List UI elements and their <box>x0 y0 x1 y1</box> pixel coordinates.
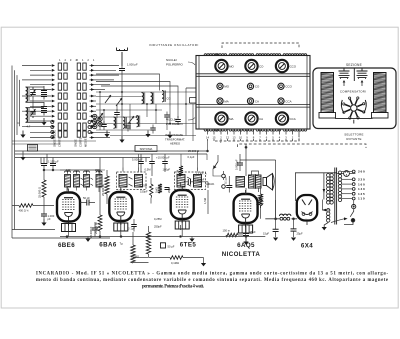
trimmer capacitor stack B <box>357 69 368 80</box>
switch output wires (right, arrowed) <box>90 64 120 139</box>
heater feed arrow <box>331 217 348 222</box>
grid leads into tubes <box>67 182 246 230</box>
coil L7 <box>123 117 126 128</box>
label NUCLEI POLIFERRO (top) <box>166 58 195 66</box>
wire y257 extension <box>133 257 148 259</box>
svg-text:50 μF: 50 μF <box>168 244 175 248</box>
bus junction dots <box>207 150 209 152</box>
junction dots (BE6 top) <box>43 169 100 171</box>
capacitor 2.1pF <box>128 219 137 232</box>
resistor 400 ohm <box>12 204 54 213</box>
capacitor Cm1 <box>101 121 107 130</box>
adjuster MO (small) <box>217 83 230 89</box>
resistor 1M (vert) <box>155 184 163 193</box>
IF transformer T2 <box>175 168 206 190</box>
capacitor Cm6 <box>175 116 181 125</box>
svg-text:CCA: CCA <box>285 99 291 103</box>
resistor 1.5M (jack return) <box>203 190 208 214</box>
ground (mesh 3) <box>147 131 149 135</box>
svg-text:25.000 pF: 25.000 pF <box>101 184 105 196</box>
svg-text:MO: MO <box>229 64 234 68</box>
svg-text:7µ: 7µ <box>120 242 124 246</box>
trimmer capacitor CT1 <box>30 87 36 99</box>
riser to bus <box>207 141 209 151</box>
B+ wire through choke <box>265 218 297 220</box>
mains switch <box>344 200 356 225</box>
bus drop wires <box>41 146 146 193</box>
capacitor C2 pair <box>41 102 47 116</box>
svg-text:0,5M: 0,5M <box>145 168 152 172</box>
ground (cathode cap) <box>43 219 45 223</box>
capacitor 5000pF (vert label) <box>234 154 243 171</box>
dashed wire to power section <box>238 144 367 148</box>
tube V3 6TE5 envelope <box>171 186 194 223</box>
interstage coupling coil <box>236 177 245 188</box>
junction dots (PSU) <box>275 218 295 220</box>
svg-text:CG: CG <box>167 97 171 101</box>
L-wire B <box>96 82 170 107</box>
ground (bus mid) <box>189 237 194 242</box>
svg-text:CA: CA <box>255 99 259 103</box>
horizontal supply buses <box>15 151 207 158</box>
svg-text:CO: CO <box>259 64 264 68</box>
volume potentiometer <box>28 145 38 152</box>
capacitor on bus C <box>162 154 168 172</box>
6BE6 base <box>62 224 76 237</box>
svg-text:0,1M: 0,1M <box>255 198 259 205</box>
resistor 5.1M <box>176 166 184 176</box>
resistor 0.5M (second tall) <box>131 232 149 263</box>
svg-text:50 pF: 50 pF <box>83 196 90 200</box>
svg-text:MA: MA <box>224 99 228 103</box>
svg-text:100pF: 100pF <box>163 168 171 172</box>
capacitor 25000pF (coupling) <box>184 177 208 188</box>
compensator section box <box>313 68 396 129</box>
trimmer arrow T3 <box>128 116 134 124</box>
mesh junction dots <box>99 91 187 124</box>
svg-text:INCARADIO - Mod. IF 51 « NICOL: INCARADIO - Mod. IF 51 « NICOLETTA » - G… <box>36 272 388 277</box>
label 6BA6 <box>99 242 123 249</box>
svg-text:pF: pF <box>48 217 51 221</box>
resistor 0.25M (grid) <box>140 178 154 204</box>
padder trimmer circle cluster <box>91 113 103 129</box>
svg-text:0,1μF: 0,1μF <box>188 155 195 159</box>
pilot lamp <box>337 171 355 177</box>
adjuster CO (small) <box>247 83 260 89</box>
svg-text:COMPENSATORI: COMPENSATORI <box>340 90 366 94</box>
coupling wire to output stage <box>245 144 247 195</box>
svg-text:GIRAD.: GIRAD. <box>206 182 216 186</box>
tube V1 6BE6 envelope <box>57 189 80 226</box>
svg-text:0,25M: 0,25M <box>140 184 148 188</box>
loudspeaker <box>263 174 274 191</box>
svg-text:20pF: 20pF <box>167 187 171 193</box>
adjuster CCA (large) <box>276 112 296 124</box>
capacitor 0.1uF (vert) <box>224 176 233 193</box>
coil L4 <box>151 93 154 104</box>
trimmer arrow T1 <box>105 95 111 103</box>
capacitor Cm4 <box>150 125 156 134</box>
adjuster CO (large) <box>245 60 264 72</box>
coil interconnect wires <box>26 87 45 123</box>
switch section labels (rotated) <box>53 130 88 147</box>
power transformer PT core <box>335 168 337 225</box>
block pin stubs <box>208 129 300 141</box>
svg-text:220: 220 <box>358 178 366 182</box>
svg-text:SEZIONE: SEZIONE <box>346 63 362 67</box>
block left connector tab <box>190 98 197 104</box>
dashed oscillator-section outline <box>215 43 299 141</box>
tube V4 6AQ5 envelope <box>234 190 258 227</box>
tuning capacitor box SINTONIA <box>135 146 157 152</box>
6X4 plate loop wire <box>295 173 337 201</box>
adjuster CA (large) <box>245 112 263 124</box>
bus junction dots bottom <box>66 236 247 238</box>
capacitor 1000pF (cathode) <box>41 206 55 222</box>
adjuster CCO (small) <box>278 83 293 89</box>
svg-text:25.000 Ω: 25.000 Ω <box>38 187 42 198</box>
svg-text:6BE6: 6BE6 <box>58 242 75 249</box>
filter choke <box>280 214 291 220</box>
svg-text:MA: MA <box>229 117 233 121</box>
label NUCLEI POLIFERRO (bottom) <box>166 118 195 126</box>
phono jack GIRAD <box>197 155 226 188</box>
ground (mesh 1) <box>106 131 108 135</box>
6TE5 base <box>175 221 189 237</box>
svg-text:10: 10 <box>239 136 242 140</box>
svg-text:160: 160 <box>358 182 366 186</box>
adjuster CCO (large) <box>276 60 297 72</box>
ground (filter cap 1) <box>273 238 278 241</box>
svg-text:1.000 pF: 1.000 pF <box>127 63 138 67</box>
svg-text:6 1 2 1: 6 1 2 1 <box>77 58 96 62</box>
PT secondary winding <box>338 171 341 202</box>
svg-text:CO: CO <box>255 85 260 89</box>
AVC capacitor 25000pF <box>38 170 47 206</box>
svg-text:CCA: CCA <box>290 117 296 121</box>
rotary wave-band selector <box>335 97 373 124</box>
screen resistor 25000pF <box>94 192 102 237</box>
svg-text:C: C <box>18 121 20 125</box>
svg-text:ONDE: ONDE <box>74 139 78 147</box>
band switch wafer contacts <box>58 63 86 137</box>
svg-text:1 2 3 4: 1 2 3 4 <box>59 58 78 62</box>
L-wire A <box>96 74 160 91</box>
padder coil left <box>319 73 336 119</box>
svg-text:13: 13 <box>233 136 236 140</box>
coil L6 <box>114 117 117 128</box>
tube V5 6X4 envelope <box>297 195 317 225</box>
wire to block edge <box>186 88 196 92</box>
bottom chassis bus <box>60 236 265 238</box>
svg-text:SINTONIA: SINTONIA <box>140 147 153 151</box>
svg-text:25.000pF: 25.000pF <box>193 177 205 181</box>
filter capacitor 25uF <box>291 219 304 237</box>
coil L8 <box>137 116 140 127</box>
svg-text:CUFF. A: CUFF. A <box>197 172 207 176</box>
ground (mesh 4) <box>169 132 171 136</box>
PT voltage taps <box>342 170 355 200</box>
L-wire C <box>101 86 178 110</box>
svg-text:+10.000 pF: +10.000 pF <box>156 156 170 160</box>
svg-text:150 m: 150 m <box>223 229 231 233</box>
resistor 0.1M vert <box>255 188 263 219</box>
label INDUTTANZE TRASFORMAT. AEREO <box>165 133 185 146</box>
PT heater winding <box>327 209 330 223</box>
svg-text:250pF: 250pF <box>154 224 162 228</box>
tube V2 6BA6 envelope <box>109 188 132 225</box>
svg-text:150pF: 150pF <box>140 190 148 194</box>
svg-text:260: 260 <box>358 170 366 174</box>
coil L5 CG <box>162 91 165 102</box>
svg-text:MO: MO <box>224 85 229 89</box>
svg-text:15: 15 <box>213 136 216 140</box>
mesh horizontal wires <box>96 92 196 136</box>
6AQ5 base <box>239 225 253 237</box>
svg-text:CCO: CCO <box>285 85 292 89</box>
antenna <box>117 48 128 67</box>
padder coil right <box>372 73 389 119</box>
antenna coil L1 <box>26 87 30 102</box>
switch feed wires (left, arrowed) <box>22 64 55 139</box>
svg-text:POLIFERRO: POLIFERRO <box>166 62 183 66</box>
svg-text:ONDE MEDIE: ONDE MEDIE <box>53 130 57 147</box>
resistor 25000 ohm (screen) <box>256 195 263 217</box>
jack feed wires <box>207 154 222 176</box>
grid capacitor 50pF <box>80 196 95 206</box>
capacitor Cm2 <box>114 109 120 118</box>
B+ riser to output <box>240 160 276 219</box>
ground (switch area) <box>22 131 24 135</box>
capacitor on bus A <box>138 154 144 172</box>
svg-text:CA: CA <box>259 117 263 121</box>
ground (filter cap 2) <box>291 238 296 241</box>
ground arrow below jack wire <box>201 258 206 267</box>
trimmer capacitor stack A <box>339 69 350 80</box>
resistor 0.1M (horiz) <box>149 256 204 265</box>
adjuster MO (large) <box>215 60 234 72</box>
label SELETTORE ROTANTE <box>344 133 363 141</box>
svg-text:4,7: 4,7 <box>27 125 31 129</box>
svg-text:1,5M: 1,5M <box>203 197 207 204</box>
capacitor on bus B <box>149 154 155 176</box>
resistor 25000pF (IF cathode) <box>101 170 109 204</box>
electrolytic 50uF <box>161 243 175 249</box>
coil block: oscillator/antenna inductance unit <box>196 56 310 130</box>
svg-text:25μF: 25μF <box>297 232 304 236</box>
IF transformer T1 <box>117 168 147 190</box>
trimmer divider <box>353 68 355 81</box>
svg-text:POLIFERRO: POLIFERRO <box>166 122 183 126</box>
filter capacitor 15uF <box>263 219 279 237</box>
svg-text:0,1MΩ: 0,1MΩ <box>171 261 179 265</box>
capacitor 25uF (cathode) <box>243 226 256 239</box>
left vertical bus wires <box>12 66 20 239</box>
coil L3 <box>142 93 145 104</box>
svg-text:1 150 μF: 1 150 μF <box>48 160 59 164</box>
left return loop wires <box>12 230 110 239</box>
svg-text:6X4: 6X4 <box>301 242 313 249</box>
resistor 0.5M (tall) <box>131 226 151 259</box>
svg-text:permanente. Potenza d’uscita 4: permanente. Potenza d’uscita 4 watt. <box>142 284 204 289</box>
capacitor 25000pF (BA6 cathode) <box>89 222 98 238</box>
capacitor C1 pair <box>41 86 47 100</box>
ground (coil area) <box>43 118 45 122</box>
trimmer capacitor CT2 <box>30 107 36 119</box>
svg-text:CORTE: CORTE <box>58 137 62 147</box>
6X4 cathode drop <box>276 200 306 219</box>
dot on dashed feed <box>245 146 247 148</box>
antenna coupling capacitor <box>119 66 125 136</box>
trimmer arrow T2 <box>116 98 122 106</box>
adjuster CCA (small) <box>278 98 292 104</box>
tuning slug bumps top edge <box>204 54 307 56</box>
adjuster CA (small) <box>247 98 259 104</box>
svg-text:0,25M: 0,25M <box>154 217 162 221</box>
svg-text:MEDIE: MEDIE <box>84 138 88 147</box>
svg-text:NICOLETTA: NICOLETTA <box>222 251 261 258</box>
svg-text:400 Ω ¾: 400 Ω ¾ <box>19 209 30 213</box>
adjuster MA (small) <box>217 98 229 104</box>
output transformer riser <box>252 171 259 192</box>
down arrow on loop <box>323 189 326 193</box>
svg-text:ROTANTE: ROTANTE <box>346 137 361 141</box>
svg-text:0,1 μF: 0,1 μF <box>224 176 228 184</box>
svg-text:110: 110 <box>358 197 365 201</box>
capacitor Cm5 <box>164 112 170 121</box>
svg-text:12: 12 <box>226 136 229 140</box>
capacitor 20pF (vert) <box>165 187 172 193</box>
svg-text:mento di banda continua, media: mento di banda continua, mediante conden… <box>36 278 388 283</box>
svg-text:15μF: 15μF <box>263 232 270 236</box>
capacitor 1150uF pair <box>41 158 59 171</box>
ground (transformer) <box>322 223 329 231</box>
left long wires to mesh <box>12 141 96 144</box>
svg-text:6BA6: 6BA6 <box>99 242 117 249</box>
svg-text:CCO: CCO <box>290 64 297 68</box>
svg-text:6TE5: 6TE5 <box>180 242 197 249</box>
ground (volume pot) <box>20 151 25 160</box>
heater wire arrow <box>322 200 330 212</box>
IF transformer risers <box>123 151 198 168</box>
ground (AQ5 cathode) <box>245 238 247 242</box>
arrows to trimmers <box>343 81 363 86</box>
svg-text:1MΩ: 1MΩ <box>155 187 159 193</box>
svg-text:25.000: 25.000 <box>256 208 260 217</box>
svg-text:CORTE: CORTE <box>79 137 83 147</box>
PT primary winding <box>327 174 334 205</box>
svg-text:2·1pF: 2·1pF <box>128 227 135 231</box>
oscillator coil group <box>60 168 105 192</box>
tuning slug bumps bottom edge <box>204 129 307 131</box>
ground (mesh 2) <box>121 136 123 140</box>
block pin numbers <box>206 136 300 140</box>
capacitor C osc pad <box>50 158 56 171</box>
oscillator coil L2 <box>26 108 30 123</box>
6BA6 base <box>114 223 128 237</box>
svg-text:AEREO: AEREO <box>170 142 181 146</box>
svg-text:5.000 pF: 5.000 pF <box>234 159 238 170</box>
svg-text:140: 140 <box>358 187 366 191</box>
svg-text:125: 125 <box>358 192 366 196</box>
capacitor Cm3 <box>125 123 131 132</box>
svg-text:14: 14 <box>206 136 209 140</box>
adjuster MA (large) <box>215 112 233 124</box>
mesh vertical wires <box>100 92 193 141</box>
output transformer T3 <box>249 174 262 189</box>
svg-text:INDUTTANZE OSCILLATORI: INDUTTANZE OSCILLATORI <box>149 43 199 47</box>
switch contact eyelets <box>51 121 91 139</box>
resistor 150 ohm <box>223 229 244 237</box>
ground (bus left) <box>85 237 90 242</box>
tap voltage labels <box>358 170 366 201</box>
svg-text:5,1M: 5,1M <box>176 169 180 176</box>
